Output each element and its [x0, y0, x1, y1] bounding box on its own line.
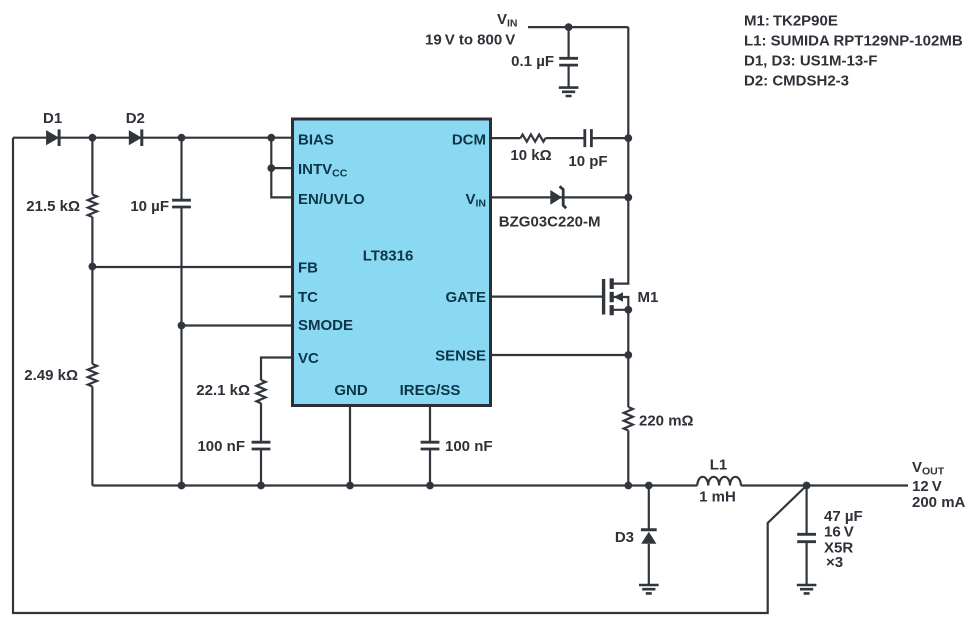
svg-text:DCM: DCM — [452, 132, 486, 149]
svg-text:10 kΩ: 10 kΩ — [510, 147, 551, 164]
svg-text:0.1 µF: 0.1 µF — [511, 53, 554, 70]
svg-text:SMODE: SMODE — [298, 317, 353, 334]
svg-text:D2: CMDSH2-3: D2: CMDSH2-3 — [744, 73, 849, 90]
svg-text:L1: SUMIDA RPT129NP-102MB: L1: SUMIDA RPT129NP-102MB — [744, 33, 963, 50]
svg-text:10 µF: 10 µF — [130, 198, 169, 215]
svg-text:D2: D2 — [126, 110, 145, 127]
svg-text:GND: GND — [334, 382, 368, 399]
svg-text:2.49 kΩ: 2.49 kΩ — [24, 367, 78, 384]
svg-text:12 V: 12 V — [912, 478, 942, 495]
svg-text:M1: TK2P90E: M1: TK2P90E — [744, 13, 838, 30]
svg-text:LT8316: LT8316 — [363, 248, 414, 265]
svg-text:200 mA: 200 mA — [912, 494, 966, 511]
svg-text:EN/UVLO: EN/UVLO — [298, 191, 365, 208]
svg-text:VOUT: VOUT — [912, 459, 945, 478]
svg-text:16 V: 16 V — [824, 524, 854, 541]
svg-text:22.1 kΩ: 22.1 kΩ — [196, 382, 250, 399]
svg-text:L1: L1 — [710, 457, 728, 474]
svg-text:47 µF: 47 µF — [824, 508, 863, 525]
svg-text:1 mH: 1 mH — [699, 489, 736, 506]
svg-text:BZG03C220-M: BZG03C220-M — [499, 214, 601, 231]
svg-text:TC: TC — [298, 289, 318, 306]
svg-text:100 nF: 100 nF — [445, 438, 493, 455]
svg-text:M1: M1 — [638, 289, 659, 306]
svg-text:IREG/SS: IREG/SS — [400, 382, 461, 399]
svg-text:D1, D3: US1M-13-F: D1, D3: US1M-13-F — [744, 53, 877, 70]
svg-text:100 nF: 100 nF — [197, 438, 245, 455]
svg-text:220 mΩ: 220 mΩ — [639, 413, 694, 430]
svg-text:×3: ×3 — [826, 554, 843, 571]
svg-text:GATE: GATE — [445, 289, 486, 306]
svg-text:19 V to 800 V: 19 V to 800 V — [425, 32, 515, 49]
svg-text:10 pF: 10 pF — [568, 153, 607, 170]
svg-text:VC: VC — [298, 350, 319, 367]
svg-text:D3: D3 — [615, 529, 634, 546]
svg-text:BIAS: BIAS — [298, 132, 334, 149]
svg-text:FB: FB — [298, 260, 318, 277]
svg-text:SENSE: SENSE — [435, 348, 486, 365]
svg-text:VIN: VIN — [497, 11, 518, 30]
svg-text:D1: D1 — [43, 110, 62, 127]
svg-text:21.5 kΩ: 21.5 kΩ — [26, 198, 80, 215]
